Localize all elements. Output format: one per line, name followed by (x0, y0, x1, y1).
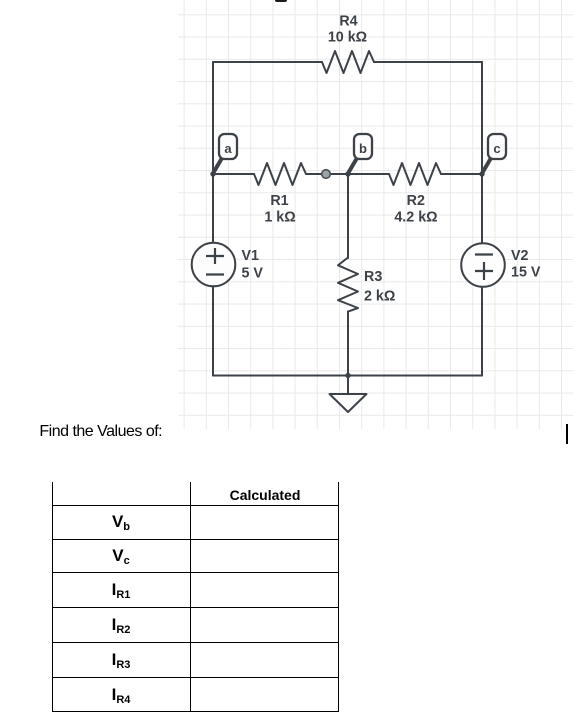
label V1 5 V (242, 248, 264, 282)
row label IR2 (52, 616, 190, 633)
svg-text:R1: R1 (270, 193, 288, 209)
row label IR4 (52, 686, 190, 703)
label V2 15 V (511, 248, 541, 281)
row label IR1 (52, 581, 190, 598)
svg-text:R4: R4 (339, 14, 357, 30)
label R1 1 kΩ (264, 193, 295, 226)
node a callout (214, 134, 238, 173)
wire top left (213, 61, 322, 63)
svg-text:R2: R2 (407, 193, 425, 209)
wire left vertical (a to top) (212, 62, 214, 174)
text cursor (566, 424, 568, 444)
wire V2 to bottom (481, 287, 483, 376)
node b junction (345, 171, 350, 176)
wire node b to R3 (347, 174, 349, 258)
ground (330, 394, 367, 412)
label R4 10 kΩ (328, 14, 367, 46)
resistor R2 (389, 163, 441, 185)
svg-text:2 kΩ: 2 kΩ (364, 289, 395, 305)
wire V1 to bottom (212, 287, 214, 376)
ground stub (347, 376, 349, 395)
wire top right (374, 61, 482, 63)
wire node a to R1 (213, 173, 254, 175)
resistor R1 (254, 163, 306, 185)
wire R1 to node b (306, 173, 348, 175)
node a junction (210, 171, 215, 176)
wire R3 to ground node (347, 312, 349, 376)
svg-text:4.2 kΩ: 4.2 kΩ (394, 210, 437, 226)
node c callout (483, 134, 507, 173)
source V1 (192, 243, 236, 287)
wire bottom (213, 375, 482, 377)
node c junction (479, 171, 484, 176)
label R3 2 kΩ (364, 269, 395, 305)
resistor R4 (322, 51, 374, 73)
schematic grid background (178, 0, 573, 429)
wire right vertical (top to c) (481, 62, 483, 174)
svg-text:V1: V1 (242, 248, 260, 264)
svg-text:15 V: 15 V (511, 265, 541, 281)
svg-text:10 kΩ: 10 kΩ (328, 30, 367, 46)
svg-text:a: a (224, 141, 232, 156)
row label IR3 (52, 651, 190, 668)
svg-text:1 kΩ: 1 kΩ (264, 210, 295, 226)
text: Find the Values of: (39, 423, 162, 441)
header Calculated (191, 488, 339, 502)
table horizontal borders (52, 505, 339, 506)
svg-text:5 V: 5 V (242, 266, 264, 282)
wire node a to V1 (212, 174, 214, 243)
cropped glyph at top edge (275, 0, 287, 2)
row label Vc (52, 547, 190, 564)
table vertical borders (52, 482, 53, 712)
resistor R3 (338, 258, 358, 312)
svg-text:V2: V2 (511, 248, 529, 264)
gray probe dot (322, 170, 331, 179)
node b callout (349, 134, 373, 173)
svg-text:b: b (359, 141, 367, 156)
source V2 (461, 243, 505, 287)
wire R2 to node c (441, 173, 482, 175)
wire node b to R2 (348, 173, 389, 175)
results table (52, 482, 339, 712)
row label Vb (52, 513, 190, 530)
svg-text:c: c (493, 141, 500, 156)
svg-text:R3: R3 (364, 269, 382, 285)
wire node c to V2 (481, 174, 483, 244)
ground junction (345, 373, 350, 378)
label R2 4.2 kΩ (394, 193, 437, 226)
